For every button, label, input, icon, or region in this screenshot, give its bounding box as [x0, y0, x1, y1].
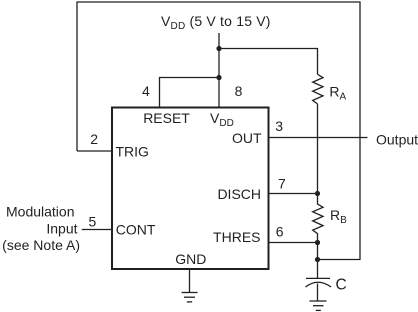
svg-text:RESET: RESET	[143, 110, 190, 126]
ground symbol (IC GND)	[182, 293, 198, 302]
junction dot: THRES node	[315, 240, 320, 245]
svg-text:6: 6	[276, 223, 284, 239]
svg-text:Modulation: Modulation	[6, 204, 75, 220]
svg-text:7: 7	[278, 175, 286, 191]
capacitor C curved bottom plate	[306, 282, 332, 287]
svg-text:(see Note A): (see Note A)	[2, 237, 80, 253]
wire: THRES pin 6 stub	[269, 242, 318, 244]
junction dot: capacitor / loop node	[315, 257, 320, 262]
svg-text:C: C	[336, 277, 347, 294]
wire: TRIG-to-THRES outer loop (left vertical, top horizontal, right vertical)	[77, 2, 360, 260]
svg-text:2: 2	[90, 131, 98, 147]
svg-text:Input: Input	[46, 220, 77, 236]
svg-text:CONT: CONT	[116, 221, 156, 237]
resistor RA	[313, 74, 323, 104]
svg-text:TRIG: TRIG	[116, 144, 149, 160]
wire: RA bottom to DISCH node	[317, 104, 319, 194]
wire: TRIG stub to pin 2	[77, 150, 112, 152]
wire: VDD stem down to pin 8	[218, 33, 220, 107]
wire: THRES node down to capacitor node	[317, 243, 319, 260]
wire: DISCH pin 7 stub	[269, 193, 318, 195]
wire: GND pin stem	[189, 269, 191, 293]
resistor RB	[313, 194, 323, 243]
svg-text:Output: Output	[376, 131, 418, 147]
junction dot: VDD / RA branch node	[216, 46, 221, 51]
junction dot: DISCH node	[315, 191, 320, 196]
IC U1 555 timer outline	[112, 108, 269, 270]
svg-text:DISCH: DISCH	[217, 186, 261, 202]
svg-text:5: 5	[89, 213, 97, 229]
wire: VDD branch to RA top	[219, 49, 318, 75]
ground symbol (capacitor)	[310, 301, 327, 310]
svg-text:OUT: OUT	[232, 130, 262, 146]
svg-text:3: 3	[275, 118, 283, 134]
wire: CONT stub to pin 5	[82, 229, 112, 231]
svg-text:4: 4	[142, 83, 150, 99]
svg-text:RB: RB	[330, 207, 347, 226]
capacitor C top plate	[306, 277, 330, 279]
svg-text:GND: GND	[175, 251, 206, 267]
svg-text:VDD (5 V to 15 V): VDD (5 V to 15 V)	[161, 13, 271, 32]
svg-text:8: 8	[235, 83, 243, 99]
wire: VDD branch to pin 4	[160, 78, 220, 108]
svg-text:VDD: VDD	[210, 110, 234, 129]
wire: OUT pin 3 to Output	[269, 137, 368, 139]
wire: capacitor bottom stem	[317, 284, 319, 302]
svg-text:THRES: THRES	[213, 229, 260, 245]
junction dot: VDD / pin-4 branch node	[216, 75, 221, 80]
wire: capacitor top stem	[317, 260, 319, 279]
svg-text:RA: RA	[329, 84, 346, 103]
